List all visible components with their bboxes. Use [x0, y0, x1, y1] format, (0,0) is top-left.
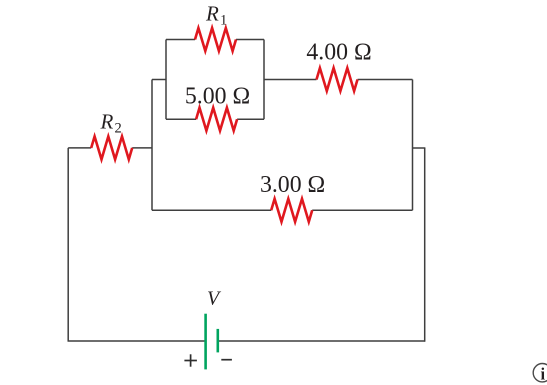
wire parallel box top edge right part — [236, 39, 264, 41]
label minus sign — [221, 359, 232, 361]
wire R2 right segment — [132, 147, 152, 149]
wire outer right vertical — [424, 148, 426, 342]
wire feed to parallel box — [152, 79, 166, 81]
wire R2 left segment — [68, 147, 91, 149]
svg-text:V: V — [207, 288, 222, 310]
resistor 3.00 ohm zigzag — [271, 199, 312, 222]
wire bottom right (from battery -) — [218, 340, 425, 342]
wire 3 ohm left segment — [152, 209, 271, 211]
wire left vertical — [67, 148, 69, 341]
battery positive plate (long) — [204, 314, 207, 370]
resistor 4.00 ohm zigzag — [317, 68, 358, 91]
wire bottom left (to battery +) — [68, 340, 206, 342]
svg-text:2: 2 — [115, 121, 122, 137]
wire 4 ohm resistor to right corner — [358, 79, 413, 81]
wire parallel box right edge — [263, 40, 265, 120]
wire tap stub node to outer right — [413, 147, 426, 149]
svg-text:5.00 Ω: 5.00 Ω — [185, 83, 250, 109]
resistor 5.00 ohm zigzag — [196, 108, 237, 131]
svg-text:4.00 Ω: 4.00 Ω — [306, 40, 371, 66]
info icon — [533, 364, 547, 384]
svg-text:R: R — [100, 110, 114, 134]
wire 3 ohm right segment — [312, 209, 412, 211]
wire parallel box bottom edge right part — [237, 118, 264, 120]
battery negative plate (short) — [217, 329, 220, 353]
wire parallel box top edge left part — [166, 39, 195, 41]
resistor R2 zigzag — [91, 136, 132, 159]
resistor R1 zigzag — [195, 28, 236, 51]
label plus sign — [184, 354, 197, 366]
wire inner right vertical — [412, 80, 414, 211]
svg-text:R: R — [205, 2, 219, 26]
svg-text:1: 1 — [220, 13, 227, 29]
svg-text:i: i — [541, 365, 546, 384]
wire parallel box bottom edge left part — [166, 118, 196, 120]
wire parallel box left edge — [165, 40, 167, 120]
svg-text:3.00 Ω: 3.00 Ω — [260, 172, 325, 198]
wire box to 4 ohm resistor — [264, 79, 317, 81]
wire mid vertical junction — [151, 80, 153, 211]
